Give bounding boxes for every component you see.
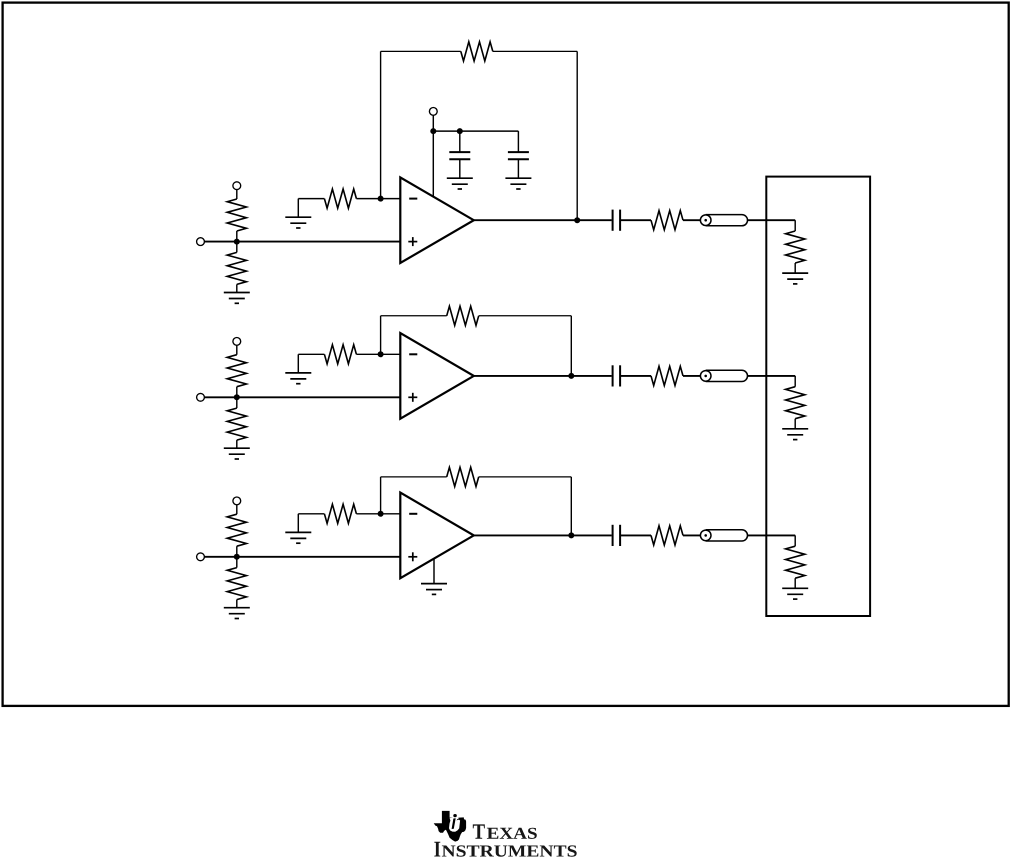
wire R1t to ground xyxy=(794,263,796,273)
wire R2g to U2 inverting input xyxy=(356,353,400,355)
resistor R2t (load termination) xyxy=(786,387,805,419)
resistor R2a (divider upper) xyxy=(227,355,246,387)
resistor R3f (feedback) xyxy=(447,467,479,486)
wire R1g to U1 inverting input xyxy=(356,198,400,200)
wire T3 to R3a xyxy=(236,505,238,514)
wire R3a to node IN3 xyxy=(236,546,238,557)
node FB1 junction at inverting input xyxy=(378,196,384,202)
wire VCC to U1 supply pin xyxy=(432,131,434,196)
wire coax W3 into load box xyxy=(748,534,796,536)
wire J3 to op-amp U3 noninverting input xyxy=(204,556,400,558)
wire C1 to ground xyxy=(459,159,461,178)
capacitor C3c (output coupling) xyxy=(613,525,621,546)
resistor R1s (series back-termination) xyxy=(651,211,683,230)
wire ground to R3g xyxy=(298,513,324,515)
wire feedback top left ch1 xyxy=(381,50,461,52)
wire feedback top right ch3 xyxy=(479,476,572,478)
coax cable W1 xyxy=(700,215,747,226)
wire feedback top left ch3 xyxy=(381,476,447,478)
capacitor C2c (output coupling) xyxy=(613,365,621,386)
ground (below R3t) xyxy=(782,588,808,599)
ground (below R1t) xyxy=(782,273,808,284)
wire R1a to node IN1 xyxy=(236,231,238,242)
Texas Instruments wordmark TEXAS xyxy=(473,824,537,839)
wire R2t to ground xyxy=(794,419,796,429)
wire VCC terminal to rail xyxy=(432,115,434,131)
wire down to R1t xyxy=(794,220,796,231)
bias terminal T3 (divider top) xyxy=(233,497,241,505)
resistor R3t (load termination) xyxy=(786,546,805,578)
wire R3g to U3 inverting input xyxy=(356,513,400,515)
wire ground stub at R1g xyxy=(297,199,299,218)
Texas Instruments wordmark INSTRUMENTS xyxy=(434,842,576,857)
wire U1 output to C1c xyxy=(474,219,612,221)
resistor R1a (divider upper) xyxy=(227,199,246,231)
wire C1c to R1s xyxy=(620,219,651,221)
node FB3 junction at inverting input xyxy=(378,511,384,517)
wire coax W2 into load box xyxy=(748,375,796,377)
wire feedback top right ch1 xyxy=(493,50,577,52)
resistor R1g (gain set) xyxy=(324,189,356,208)
wire C3c to R3s xyxy=(620,534,651,536)
wire down to R2t xyxy=(794,376,796,387)
node FB2 junction at inverting input xyxy=(378,351,384,357)
ground (at R1g) xyxy=(285,217,311,228)
wire feedback left riser ch2 xyxy=(380,316,382,355)
load box U2 (display / termination box) xyxy=(766,177,870,616)
node OUT3 junction xyxy=(568,532,574,538)
wire feedback top right ch2 xyxy=(479,315,572,317)
wire R3t to ground xyxy=(794,578,796,588)
ground (below R3b) xyxy=(224,608,250,619)
node IN1 junction xyxy=(234,239,240,245)
input terminal J1 xyxy=(197,238,205,246)
wire rail to C2 xyxy=(517,131,519,152)
wire R2s to coax W2 xyxy=(683,375,700,377)
resistor R2b (divider lower) xyxy=(227,408,246,440)
wire R2a to node IN2 xyxy=(236,387,238,398)
wire feedback top left ch2 xyxy=(381,315,447,317)
resistor R2s (series back-termination) xyxy=(651,366,683,385)
resistor R1b (divider lower) xyxy=(227,252,246,284)
Texas Instruments logo bug xyxy=(434,811,466,842)
wire ground stub at R2g xyxy=(297,354,299,373)
wire T2 to R2a xyxy=(236,345,238,354)
resistor R2f (feedback) xyxy=(447,306,479,325)
ground (at R2g) xyxy=(285,373,311,384)
capacitor C1 (bypass) xyxy=(449,152,470,159)
wire R1s to coax W1 xyxy=(683,219,700,221)
capacitor C2 (bypass) xyxy=(508,152,529,159)
wire U3 supply pin to ground xyxy=(433,559,435,584)
node IN2 junction xyxy=(234,394,240,400)
node VCC junction 2 xyxy=(457,128,463,134)
ground (below R1b) xyxy=(224,293,250,304)
wire U2 output to C2c xyxy=(474,375,612,377)
wire ground to R2g xyxy=(298,353,324,355)
ground (below C1) xyxy=(447,178,473,189)
node OUT2 junction xyxy=(568,373,574,379)
ground (U3 supply) xyxy=(421,584,447,595)
resistor R1t (load termination) xyxy=(786,231,805,263)
resistor R3b (divider lower) xyxy=(227,568,246,600)
capacitor C1c (output coupling) xyxy=(613,210,621,231)
node IN3 junction xyxy=(234,554,240,560)
input terminal J3 xyxy=(197,553,205,561)
wire R1b to ground xyxy=(236,284,238,292)
op-amp U2 xyxy=(400,333,474,419)
resistor R1f (feedback) xyxy=(461,42,493,61)
wire feedback right riser ch2 xyxy=(570,316,572,376)
wire node IN1 to R1b xyxy=(236,242,238,253)
coax cable W2 xyxy=(700,370,747,381)
power terminal VCC xyxy=(429,108,437,116)
wire node IN2 to R2b xyxy=(236,397,238,408)
wire J1 to op-amp U1 noninverting input xyxy=(204,241,400,243)
resistor R3a (divider upper) xyxy=(227,514,246,546)
wire coax W1 into load box xyxy=(748,219,796,221)
resistor R2g (gain set) xyxy=(324,345,356,364)
wire feedback right riser ch3 xyxy=(570,477,572,536)
wire down to R3t xyxy=(794,535,796,546)
input terminal J2 xyxy=(197,393,205,401)
resistor R3g (gain set) xyxy=(324,504,356,523)
wire feedback left riser ch3 xyxy=(380,477,382,514)
wire VCC rail xyxy=(433,130,518,132)
bias terminal T2 (divider top) xyxy=(233,338,241,346)
wire R3s to coax W3 xyxy=(683,534,700,536)
wire ground stub at R3g xyxy=(297,514,299,533)
wire feedback right riser ch1 xyxy=(576,51,578,220)
wire node IN3 to R3b xyxy=(236,557,238,568)
node VCC junction 1 xyxy=(430,128,436,134)
wire C2c to R2s xyxy=(620,375,651,377)
node OUT1 junction xyxy=(574,217,580,223)
ground (at R3g) xyxy=(285,532,311,543)
coax cable W3 xyxy=(700,530,747,541)
wire C2 to ground xyxy=(517,159,519,178)
wire U3 output to C3c xyxy=(474,534,612,536)
op-amp U1 xyxy=(400,177,474,263)
wire feedback left riser ch1 xyxy=(380,51,382,198)
bias terminal T1 (divider top) xyxy=(233,182,241,190)
op-amp U3 xyxy=(400,493,474,579)
wire R3b to ground xyxy=(236,600,238,608)
wire J2 to op-amp U2 noninverting input xyxy=(204,396,400,398)
wire T1 to R1a xyxy=(236,190,238,199)
ground (below C2) xyxy=(505,178,531,189)
resistor R3s (series back-termination) xyxy=(651,526,683,545)
ground (below R2t) xyxy=(782,429,808,440)
wire ground to R1g xyxy=(298,198,324,200)
wire R2b to ground xyxy=(236,440,238,448)
wire rail to C1 xyxy=(459,131,461,152)
ground (below R2b) xyxy=(224,448,250,459)
